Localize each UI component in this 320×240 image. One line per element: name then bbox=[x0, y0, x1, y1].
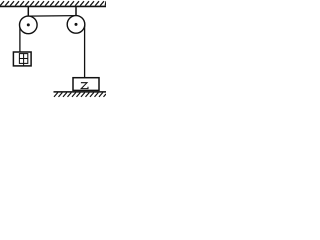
ceiling line bbox=[0, 5, 106, 7]
left rope to block 甲 bbox=[19, 25, 21, 53]
left pulley support wire bbox=[27, 7, 29, 25]
block 乙 box bbox=[73, 78, 99, 91]
ground hatching bbox=[54, 93, 106, 97]
ground line bbox=[54, 91, 107, 93]
right pulley axle bbox=[75, 23, 78, 26]
right rope to block 乙 bbox=[84, 24, 86, 78]
label 乙 glyph bbox=[81, 83, 88, 89]
label 甲 glyph bbox=[19, 54, 27, 66]
block 甲 box bbox=[13, 52, 31, 66]
left pulley wheel bbox=[20, 16, 38, 34]
horizontal rope between pulleys bbox=[28, 15, 76, 18]
right pulley wheel bbox=[67, 16, 85, 34]
right pulley support wire bbox=[75, 7, 77, 24]
left pulley axle bbox=[27, 23, 30, 26]
ceiling hatching bbox=[0, 1, 106, 5]
